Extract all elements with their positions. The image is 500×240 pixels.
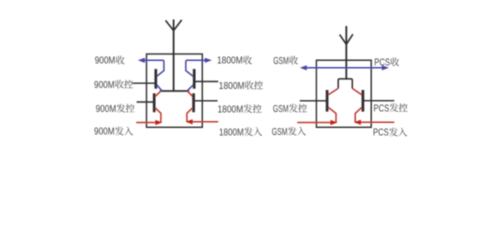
transistor Q3 (900M transmit) base bar [153, 93, 156, 112]
label 1800M transmit input [219, 127, 262, 138]
wire Q2 emitter to node N1 [187, 85, 193, 91]
svg-text:PCS: PCS [373, 128, 389, 139]
wire Q4 collector to node N1 [188, 91, 193, 96]
arrowhead PCS receive [382, 65, 389, 70]
label PCS transmit input [373, 128, 407, 139]
arrowhead 1800M receive [205, 58, 212, 63]
transistor Q2 (1800M receive) base bar [193, 69, 196, 89]
svg-text:1800M: 1800M [217, 56, 243, 67]
enclosure box U1 [147, 54, 203, 127]
svg-text:1800M: 1800M [219, 81, 245, 92]
arrowhead GSM receive [300, 65, 307, 70]
label GSM transmit control [273, 104, 307, 115]
svg-text:GSM: GSM [273, 56, 289, 67]
arrowhead 900M transmit input [155, 120, 162, 125]
wire Q5 emitter down to GSM input [328, 107, 336, 122]
enclosure box U2 [316, 60, 371, 127]
label PCS receive [374, 58, 399, 69]
arrowhead PCS transmit input [354, 120, 361, 125]
transistor Q4 (1800M transmit) base bar [192, 93, 195, 112]
label 900M receive control [94, 80, 133, 91]
arrowhead 1800M transmit input [186, 119, 193, 124]
wire 900M receive control lead [133, 82, 155, 84]
wire GSM transmit control lead [300, 100, 326, 102]
wire Q6 collector to node N2 [352, 88, 361, 94]
wire PCS transmit control lead [364, 100, 394, 102]
wire Q1 emitter to node N1 [157, 85, 162, 91]
wire GSM/PCS receive line across box [303, 67, 386, 69]
svg-text:1800M: 1800M [218, 104, 244, 115]
wire Q2 collector to 1800M receive output [186, 60, 208, 76]
antenna ANT2 mast [345, 26, 347, 79]
wire PCS transmit input line [360, 121, 395, 123]
transistor Q1 (900M receive) base bar [154, 69, 157, 89]
label 1800M receive [217, 56, 252, 67]
svg-text:GSM: GSM [273, 104, 289, 115]
node N1 common junction wire [160, 90, 189, 92]
wire 1800M transmit control lead [195, 100, 218, 102]
svg-text:1800M: 1800M [219, 127, 244, 138]
svg-text:900M: 900M [95, 56, 116, 67]
label PCS transmit control [374, 103, 408, 114]
antenna ANT2 arms [340, 34, 353, 44]
node N2 collector bridge [338, 79, 352, 89]
label 900M transmit input [94, 127, 133, 138]
antenna ANT1 arms [166, 20, 182, 31]
svg-text:900M: 900M [96, 104, 117, 115]
wire Q5 collector to node N2 [328, 88, 338, 94]
wire 1800M transmit input line [191, 121, 218, 123]
svg-text:PCS: PCS [374, 58, 390, 69]
arrowhead 900M receive [138, 58, 145, 63]
wire 900M transmit control lead [137, 101, 154, 103]
wire Q3 emitter down to 900M input [155, 108, 161, 123]
label GSM receive [273, 56, 298, 67]
svg-text:900M: 900M [94, 127, 115, 138]
wire 1800M receive control lead [195, 81, 218, 83]
antenna ANT1 mast + wire to node [173, 20, 175, 92]
label 1800M transmit control [218, 104, 262, 115]
label 900M transmit control [96, 104, 135, 115]
wire Q6 emitter down to PCS input [355, 107, 362, 122]
svg-text:900M: 900M [94, 80, 115, 91]
label 900M receive [95, 56, 125, 67]
transistor Q6 (PCS) base bar [362, 90, 365, 112]
wire Q3 collector to node N1 [155, 91, 160, 96]
wire Q4 emitter down to 1800M input [187, 108, 193, 122]
arrowhead GSM transmit input [330, 120, 337, 125]
svg-text:GSM: GSM [272, 127, 288, 138]
label 1800M receive control [219, 81, 263, 92]
svg-text:PCS: PCS [374, 103, 390, 114]
wire 900M transmit input line [136, 122, 156, 124]
label GSM transmit input [272, 127, 306, 138]
transistor Q5 (GSM) base bar [326, 90, 329, 112]
wire Q1 collector to 900M receive output [142, 60, 164, 76]
wire GSM transmit input line [297, 122, 331, 124]
